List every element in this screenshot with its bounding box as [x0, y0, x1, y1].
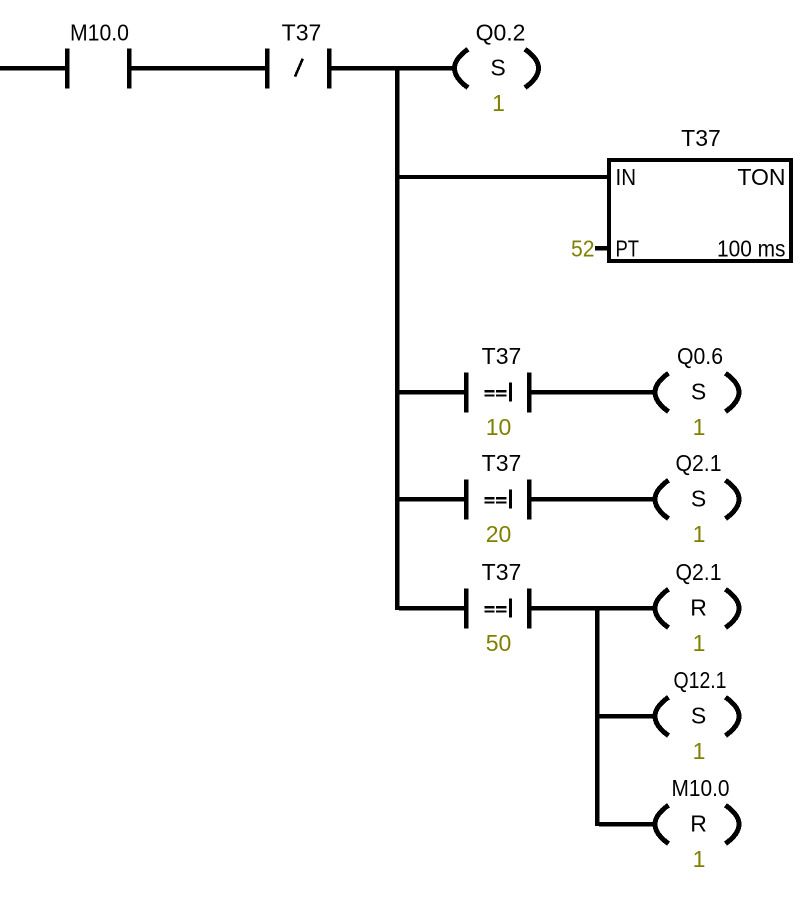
svg-text:R: R	[690, 595, 707, 621]
wire W2 between contacts	[131, 66, 265, 70]
svg-text:Q0.6: Q0.6	[677, 343, 723, 369]
wire W9 branch to compare contact row 5	[399, 606, 464, 610]
svg-text:1: 1	[492, 90, 505, 116]
contact compare T37 == 20	[464, 450, 531, 547]
wire W3 to coil Q0.2	[331, 66, 455, 70]
svg-text:1: 1	[693, 738, 706, 764]
svg-text:R: R	[690, 811, 707, 837]
svg-text:Q0.2: Q0.2	[476, 20, 526, 46]
svg-text:S: S	[691, 379, 706, 405]
contact compare T37 == 50	[464, 559, 531, 656]
wire W12 sub branch to coil M10.0	[599, 822, 655, 826]
svg-text:S: S	[691, 703, 706, 729]
svg-text:1: 1	[693, 521, 706, 547]
svg-text:T37: T37	[282, 20, 322, 46]
svg-text:TON: TON	[737, 164, 785, 190]
svg-text:1: 1	[693, 846, 706, 872]
wire W4 branch to timer box	[399, 175, 609, 179]
svg-text:1: 1	[693, 630, 706, 656]
wire V1 main branch vertical	[395, 66, 399, 610]
svg-text:T37: T37	[482, 343, 522, 369]
coil Q0.2 set	[455, 20, 539, 117]
svg-text:S: S	[490, 55, 505, 81]
svg-text:20: 20	[486, 521, 512, 547]
svg-text:Q12.1: Q12.1	[674, 667, 727, 693]
svg-text:100 ms: 100 ms	[717, 236, 786, 262]
coil Q2.1 set	[655, 450, 739, 547]
svg-text:T37: T37	[681, 125, 721, 151]
contact M10.0 (normally open)	[65, 20, 131, 89]
svg-text:10: 10	[486, 414, 512, 440]
wire W5 branch to compare contact row 3	[399, 390, 464, 394]
svg-text:Q2.1: Q2.1	[676, 450, 722, 476]
wire V2 sub branch vertical	[595, 606, 599, 826]
svg-text:T37: T37	[482, 450, 522, 476]
coil Q2.1 reset	[655, 559, 739, 656]
coil Q12.1 set	[655, 667, 739, 764]
wire W6 row 3 to coil Q0.6	[531, 390, 655, 394]
svg-text:IN: IN	[616, 164, 637, 190]
svg-text:1: 1	[693, 414, 706, 440]
svg-text:PT: PT	[616, 236, 640, 262]
wire W11 sub branch to coil Q12.1	[599, 714, 655, 718]
svg-text:52: 52	[571, 236, 595, 262]
timer T37 TON box	[571, 125, 791, 262]
svg-text:Q2.1: Q2.1	[676, 559, 722, 585]
wire W1 left rail to contact M10.0	[0, 66, 65, 70]
svg-text:T37: T37	[482, 559, 522, 585]
svg-text:S: S	[691, 486, 706, 512]
coil M10.0 reset	[655, 775, 739, 872]
wire W10 row 5 to coil Q2.1 reset	[531, 606, 655, 610]
svg-text:M10.0: M10.0	[672, 775, 730, 801]
wire W7 branch to compare contact row 4	[399, 497, 464, 501]
svg-text:M10.0: M10.0	[70, 20, 129, 46]
contact T37 (normally closed)	[265, 20, 331, 89]
wire W8 row 4 to coil Q2.1	[531, 497, 655, 501]
coil Q0.6 set	[655, 343, 739, 440]
wire PT stub	[595, 246, 609, 250]
svg-text:50: 50	[486, 630, 512, 656]
contact compare T37 == 10	[464, 343, 531, 440]
